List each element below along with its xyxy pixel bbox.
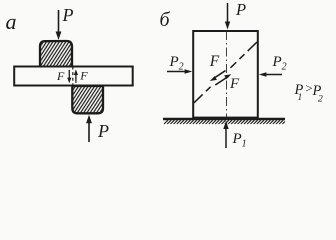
force arrow P (top, right figure) [225, 3, 230, 30]
force arrow P2 (left side) [167, 69, 192, 74]
shear couple arrow lower (up-right) [215, 74, 231, 85]
upper hatched block (left figure) [40, 41, 72, 67]
svg-text:P: P [235, 0, 246, 19]
force arrow P (top, left figure) [56, 10, 62, 40]
svg-text:F: F [229, 76, 240, 92]
lower hatched block (left figure) [72, 86, 103, 113]
svg-text:P: P [62, 5, 74, 25]
ground hatching [164, 120, 285, 124]
force arrow P1 (bottom, right figure) [223, 121, 228, 148]
svg-text:а: а [6, 9, 17, 34]
horizontal bar (left figure) [14, 67, 133, 86]
ground line [163, 118, 285, 120]
svg-text:б: б [160, 9, 171, 31]
shear arrow F down (in bar) [67, 70, 71, 83]
dashed shear diagonal upper segment (right figure) [231, 42, 258, 68]
svg-text:F: F [56, 69, 65, 83]
vertical centerline (right figure) [226, 31, 228, 117]
svg-text:1: 1 [298, 93, 303, 103]
svg-text:2: 2 [318, 95, 323, 105]
shear arrow F up (in bar) [74, 69, 78, 82]
force arrow P2 (right side) [259, 72, 282, 77]
dashed section line (in bar) [72, 67, 74, 86]
svg-text:P: P [97, 121, 109, 141]
prism box (right figure) [193, 31, 258, 118]
force arrow P (bottom, left figure) [86, 115, 92, 142]
shear couple arrow upper (down-left) [210, 71, 226, 81]
dashed shear diagonal lower segment (right figure) [194, 84, 214, 103]
svg-text:F: F [209, 53, 220, 70]
svg-text:F: F [79, 69, 88, 83]
